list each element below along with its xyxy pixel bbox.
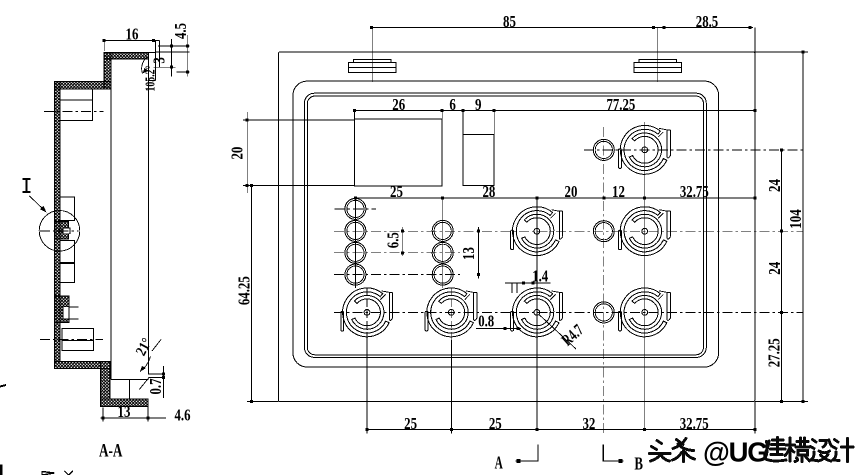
svg-text:77.25: 77.25 xyxy=(606,95,635,114)
dimension 85 xyxy=(372,26,658,28)
detail leader arrow xyxy=(30,196,45,211)
dimension row 25-28-20-12-32.75 xyxy=(355,197,755,199)
dimension 4.5 xyxy=(187,35,189,77)
dimension 6.5 xyxy=(402,227,404,256)
circle row centerline y253 xyxy=(334,252,460,254)
dimension 28.5 xyxy=(658,26,753,28)
side view boss 3 xyxy=(62,329,94,351)
hole circles column 2 xyxy=(432,220,453,241)
side view bottom step wall (hatched) xyxy=(101,361,111,399)
svg-text:28.5: 28.5 xyxy=(696,12,718,31)
svg-text:64.25: 64.25 xyxy=(235,276,254,305)
angle dimension 105.2 xyxy=(142,58,147,74)
side view latch block 2 (hatched) xyxy=(54,296,69,323)
small window rectangle xyxy=(463,134,494,185)
svg-text:25: 25 xyxy=(489,414,502,433)
detail circle I xyxy=(39,211,80,252)
svg-text:13: 13 xyxy=(118,402,131,421)
dimension 13 (side view) xyxy=(101,417,148,419)
knockout spiral row2 left xyxy=(511,207,563,256)
centerline spiral column x537 xyxy=(536,198,538,430)
svg-text:32.75: 32.75 xyxy=(680,182,709,201)
dimension row bottom 25-25-32-32.75 xyxy=(367,429,755,431)
svg-text:24: 24 xyxy=(765,179,784,192)
svg-text:16: 16 xyxy=(126,25,139,44)
dimension 0.8 xyxy=(476,327,521,329)
svg-text:105.2°: 105.2° xyxy=(143,66,158,92)
svg-text:0.7: 0.7 xyxy=(146,379,165,395)
right tab centerline xyxy=(657,27,659,82)
svg-text:6: 6 xyxy=(449,95,456,114)
svg-text:32.75: 32.75 xyxy=(680,414,709,433)
centerline spiral column x645 xyxy=(644,122,646,430)
cut-off mark left edge xyxy=(0,465,3,475)
knockout spiral row2 right xyxy=(619,207,671,256)
knockout spiral row1 xyxy=(619,125,671,174)
svg-text:A: A xyxy=(495,452,503,472)
dimension 1.4 xyxy=(505,282,550,284)
side view top wall (hatched section) xyxy=(104,52,149,59)
cut-off Y mark xyxy=(65,471,74,475)
row2 horizontal centerline xyxy=(334,230,803,232)
svg-text:25: 25 xyxy=(390,182,403,201)
dimension extension lines top right of side view xyxy=(155,51,189,53)
watermark toutiao @UG text xyxy=(650,439,695,462)
circle row centerline y275 xyxy=(334,274,460,276)
side view bottom interior lines xyxy=(111,378,149,380)
svg-text:4.5: 4.5 xyxy=(171,23,190,39)
svg-text:26: 26 xyxy=(392,95,405,114)
col1 top circle centerline xyxy=(335,208,376,210)
side view latch centerline xyxy=(40,230,79,232)
svg-text:1.4: 1.4 xyxy=(532,266,548,285)
side view bottom-left band (hatched) xyxy=(54,361,100,368)
svg-text:12: 12 xyxy=(612,182,625,201)
svg-text:6.5: 6.5 xyxy=(383,232,402,248)
radius leader R4.7 xyxy=(539,315,576,350)
knockout spiral row3 #1 xyxy=(341,288,393,337)
side view inner rim line xyxy=(110,89,112,379)
svg-text:25: 25 xyxy=(404,414,417,433)
svg-text:32: 32 xyxy=(582,414,595,433)
dimension 4.6 xyxy=(148,417,166,419)
side view bottom band (hatched) xyxy=(101,399,149,407)
side view inner surfaces xyxy=(111,58,149,60)
panel rounded rectangle xyxy=(293,81,719,367)
hole circles column x604 xyxy=(593,139,614,160)
dimension row 26-6-9-77.25 xyxy=(354,110,755,112)
side view left wall (hatched) xyxy=(54,81,60,361)
dimension 20 xyxy=(246,112,248,193)
side view lip chamfer line xyxy=(139,378,149,390)
dimension 16 xyxy=(104,39,159,41)
svg-text:4.6: 4.6 xyxy=(175,406,191,425)
side view bezel step outline xyxy=(104,51,155,53)
dimension 64.25 xyxy=(251,185,253,401)
svg-text:20: 20 xyxy=(565,182,578,201)
right mounting tab xyxy=(639,59,677,62)
bottom extension lines xyxy=(366,340,368,434)
side view boss 1 xyxy=(60,89,92,121)
side view boss 1 centerline xyxy=(44,110,103,112)
svg-text:9: 9 xyxy=(475,95,482,114)
side view bottom lip xyxy=(149,373,164,375)
svg-text:24: 24 xyxy=(765,262,784,275)
left tab centerline xyxy=(371,27,373,82)
dimension 0.7 xyxy=(163,366,165,398)
svg-text:27.25: 27.25 xyxy=(765,338,784,367)
centerline column x355 xyxy=(354,198,356,288)
side view boss 3 centerline xyxy=(40,339,103,341)
outer rectangle of rear box xyxy=(278,52,755,402)
centerline spiral1 vertical xyxy=(366,288,368,430)
display window rectangle xyxy=(354,119,442,186)
cut-off triangle mark xyxy=(42,472,55,475)
row1 horizontal centerline xyxy=(584,149,803,151)
centerline circle column x604 xyxy=(603,127,605,435)
knockout spiral row3 #2 xyxy=(425,288,477,337)
row3 horizontal centerline xyxy=(334,311,803,313)
svg-text:20: 20 xyxy=(228,147,247,160)
svg-text:85: 85 xyxy=(503,12,516,31)
svg-text:13: 13 xyxy=(459,247,478,260)
left mounting tab xyxy=(354,59,392,62)
angle dimension 21 deg xyxy=(140,357,151,372)
side view latch block (hatched) xyxy=(54,222,68,240)
side view top step wall (hatched) xyxy=(104,52,111,89)
svg-text:A-A: A-A xyxy=(99,442,123,462)
hole circles column 1 xyxy=(345,198,366,219)
side view latch boss stack xyxy=(60,197,74,220)
svg-text:0.8: 0.8 xyxy=(478,311,494,330)
knockout spiral row3 #4 xyxy=(619,288,671,337)
svg-text:@UG: @UG xyxy=(703,437,767,468)
centerline column x443 xyxy=(442,198,444,288)
dimension 3 xyxy=(170,39,172,77)
panel face double rounded rectangle outer xyxy=(304,93,706,357)
dimension 104 xyxy=(802,52,804,402)
detail label I xyxy=(23,178,31,180)
svg-text:28: 28 xyxy=(482,182,495,201)
dimension chain 24-24-27.25 xyxy=(780,150,782,402)
side view front face line xyxy=(148,52,150,374)
dimension 13 (columns) xyxy=(478,227,480,279)
knockout spiral row3 #3 xyxy=(511,288,563,337)
svg-text:3: 3 xyxy=(150,57,169,64)
svg-text:B: B xyxy=(634,454,643,474)
centerline spiral2 vertical xyxy=(450,288,452,430)
watermark CJK jian-mo-she-ji xyxy=(765,438,854,462)
panel face double rounded rectangle inner xyxy=(307,96,703,355)
svg-text:104: 104 xyxy=(786,209,805,228)
side view upper-left wall band (hatched) xyxy=(54,81,111,89)
